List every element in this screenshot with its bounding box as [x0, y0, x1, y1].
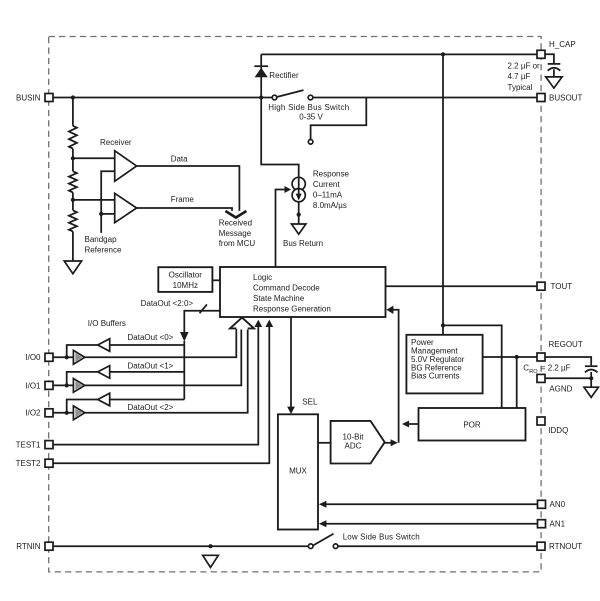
wire driver 1 to pin line — [67, 372, 98, 386]
svg-text:from MCU: from MCU — [219, 239, 256, 248]
node I/O1 tie — [65, 383, 69, 387]
wire DataOut 0 — [110, 344, 185, 346]
svg-text:Oscillator: Oscillator — [169, 271, 203, 280]
node divider tap 2 — [71, 198, 75, 202]
node bandgap tee — [99, 212, 103, 216]
svg-text:DataOut <0>: DataOut <0> — [128, 333, 174, 342]
wire TEST2 to logic — [53, 327, 269, 463]
svg-text:BUSIN: BUSIN — [16, 93, 41, 102]
svg-text:I/O Buffers: I/O Buffers — [88, 319, 126, 328]
svg-text:MUX: MUX — [289, 466, 307, 475]
svg-text:IDDQ: IDDQ — [548, 426, 568, 435]
arrow TEST2 into logic — [265, 320, 273, 327]
svg-text:SEL: SEL — [302, 398, 318, 407]
wire REGOUT from power management — [483, 356, 537, 358]
arrow SEL into MUX — [287, 407, 295, 414]
svg-text:10MHz: 10MHz — [173, 281, 198, 290]
svg-text:High Side Bus Switch: High Side Bus Switch — [268, 103, 349, 112]
arrow AN1 into MUX — [319, 520, 327, 527]
pin AN0 — [538, 500, 566, 509]
svg-text:Low Side Bus Switch: Low Side Bus Switch — [343, 532, 420, 541]
wire oscillator to logic — [212, 279, 220, 281]
wire driver 2 to pin line — [67, 400, 98, 413]
wire ADC output — [385, 442, 391, 444]
wire tap1 to data comparator — [73, 157, 115, 159]
switch high side bus switch — [268, 90, 349, 122]
svg-text:AGND: AGND — [549, 385, 572, 394]
arrow hollow bus arrow into logic bottom — [230, 318, 254, 329]
wire feedback into logic right edge — [393, 310, 399, 443]
wire DataOut bus vertical distribution — [183, 341, 185, 400]
wire I/O0 pin line — [53, 356, 73, 358]
arrow POR output into feedback line — [402, 421, 409, 428]
svg-text:Rectifier: Rectifier — [269, 71, 299, 80]
svg-text:Bus Return: Bus Return — [283, 239, 323, 248]
wire SEL from logic to MUX — [290, 317, 292, 407]
wire buffer 2 output to logic — [85, 330, 248, 413]
block power management — [406, 335, 482, 394]
svg-text:I/O2: I/O2 — [25, 409, 41, 418]
svg-text:Reference: Reference — [85, 246, 122, 255]
wire bus segment right of switch to BUSOUT — [313, 97, 537, 99]
svg-text:TOUT: TOUT — [551, 282, 573, 291]
svg-text:Command Decode: Command Decode — [253, 283, 320, 292]
node I/O2 tie — [65, 411, 69, 415]
buffer input schmitt 1 — [73, 379, 84, 393]
svg-text:H_CAP: H_CAP — [549, 40, 576, 49]
switch low side bus switch — [308, 532, 419, 548]
wire H_CAP pin branch down to capacitor — [545, 54, 554, 63]
svg-text:0-35 V: 0-35 V — [299, 113, 323, 122]
arrow ADC output into feedback line — [391, 439, 398, 446]
buffer output driver 2 — [98, 393, 110, 406]
wire driver 0 to pin line — [67, 345, 98, 357]
svg-text:0–11mA: 0–11mA — [313, 191, 343, 200]
op-amp data comparator — [115, 151, 137, 182]
svg-text:BUSOUT: BUSOUT — [549, 93, 582, 102]
node switch control terminal — [308, 140, 313, 145]
wire TOUT from logic — [386, 285, 538, 287]
ground RTN internal — [203, 555, 219, 567]
node bus tap to resistor divider — [71, 95, 75, 99]
pin AN1 — [538, 520, 566, 529]
node AGND junction — [589, 376, 593, 380]
capacitor C1 2.2uF or 4.7uF — [508, 62, 561, 92]
wire data output — [137, 166, 240, 211]
svg-text:ADC: ADC — [345, 442, 362, 451]
pin I/O0 — [25, 353, 53, 362]
svg-text:8.0mA/µs: 8.0mA/µs — [313, 201, 347, 210]
wire REGOUT branch into POR top — [516, 357, 518, 408]
svg-text:Current: Current — [313, 180, 340, 189]
pin IDDQ — [537, 417, 568, 435]
wire supply branch to POR top — [443, 325, 502, 408]
wire I/O1 pin line — [53, 384, 73, 386]
svg-text:POR: POR — [463, 421, 481, 430]
svg-text:Response: Response — [313, 169, 350, 178]
svg-text:TEST1: TEST1 — [16, 441, 41, 450]
wire logic control to current source — [276, 190, 285, 268]
arrow TEST1 into logic — [254, 320, 262, 327]
svg-text:AN0: AN0 — [550, 500, 566, 509]
wire BUSIN bus segment left — [53, 97, 272, 99]
op-amp frame comparator — [115, 193, 137, 222]
wire AGND node to AGND pin — [545, 377, 591, 379]
buffer output driver 0 — [98, 339, 110, 352]
block logic U1 — [220, 267, 386, 317]
svg-text:Message: Message — [219, 229, 252, 238]
node I/O0 tie — [65, 355, 69, 359]
svg-text:I/O1: I/O1 — [25, 381, 41, 390]
wire resistor divider column — [72, 98, 74, 261]
arrow feedback into logic — [386, 306, 393, 314]
svg-text:RTNIN: RTNIN — [16, 542, 41, 551]
pin AGND — [537, 374, 573, 393]
block oscillator U2 — [158, 267, 212, 292]
ground AGND external — [584, 387, 598, 397]
diode D1 rectifier — [254, 66, 299, 80]
wire DataOut 2 — [110, 399, 185, 401]
svg-text:Received: Received — [219, 218, 252, 227]
block ADC 10-bit — [331, 421, 385, 464]
svg-text:Receiver: Receiver — [100, 138, 132, 147]
wire supply drop from top rail into power management — [442, 54, 444, 334]
svg-text:RTNOUT: RTNOUT — [549, 542, 582, 551]
wire AN1 to MUX — [326, 523, 538, 525]
wire I/O2 pin line — [53, 412, 73, 414]
buffer output driver 1 — [98, 366, 110, 379]
pin RTNIN — [16, 542, 53, 551]
wire POR output — [409, 423, 419, 425]
wire top rail to H_CAP — [261, 53, 537, 55]
bus slash marker — [200, 304, 207, 313]
svg-text:State Machine: State Machine — [253, 294, 305, 303]
wire DataOut 1 — [110, 371, 185, 373]
pin BUSOUT — [537, 93, 582, 102]
svg-text:Frame: Frame — [171, 195, 195, 204]
wire buffer 1 output to logic — [85, 330, 242, 386]
wire RTN line to RTNOUT — [338, 545, 537, 547]
pin TEST1 — [16, 441, 53, 450]
node bus tap to rectifier — [259, 95, 263, 99]
pin REGOUT — [537, 340, 583, 361]
svg-text:Logic: Logic — [253, 273, 272, 282]
arrow received message chevron — [225, 211, 246, 218]
node supply branch to POR — [441, 323, 445, 327]
pin RTNOUT — [537, 542, 582, 551]
pin TEST2 — [16, 459, 53, 468]
svg-text:DataOut <1>: DataOut <1> — [128, 361, 174, 370]
pin H_CAP — [537, 40, 576, 58]
buffer input schmitt 2 — [73, 406, 84, 420]
bus return symbol at H_CAP — [546, 77, 562, 88]
arrow DataOut bus down — [180, 332, 189, 342]
svg-text:Bias Currents: Bias Currents — [411, 372, 459, 381]
node H_CAP rail junction — [441, 52, 445, 56]
wire capacitor to return symbol — [553, 69, 555, 77]
node REGOUT branch to POR — [515, 355, 519, 359]
bus return symbol — [292, 224, 306, 234]
wire DataOut bus from logic — [184, 311, 220, 334]
pin TOUT — [537, 282, 572, 291]
IC boundary dashed border — [49, 37, 541, 572]
resistor R1 — [69, 126, 77, 149]
wire bandgap reference feed — [101, 171, 115, 233]
current source I1 response current — [292, 169, 349, 209]
block POR — [419, 408, 526, 441]
node RTN ground tap — [208, 544, 212, 548]
capacitor C_RO 2.2uF — [523, 364, 597, 375]
wire REGOUT pin branch to external capacitor — [545, 357, 591, 365]
svg-text:= 2.2 µF: = 2.2 µF — [541, 364, 571, 373]
svg-text:REGOUT: REGOUT — [549, 340, 583, 349]
pin BUSIN — [16, 93, 53, 102]
svg-text:2.2 µF or: 2.2 µF or — [508, 62, 541, 71]
svg-text:DataOut <2:0>: DataOut <2:0> — [141, 299, 194, 308]
svg-text:Response Generation: Response Generation — [253, 305, 331, 314]
pin I/O2 — [25, 409, 53, 418]
node below current source — [297, 213, 301, 217]
svg-text:I/O0: I/O0 — [25, 353, 41, 362]
arrow AN0 into MUX — [319, 501, 327, 508]
block MUX — [278, 414, 318, 529]
ground divider ground — [64, 261, 81, 274]
svg-text:Bandgap: Bandgap — [85, 235, 118, 244]
svg-text:Data: Data — [171, 155, 188, 164]
wire buffer 0 output to logic — [85, 329, 237, 357]
svg-text:10-Bit: 10-Bit — [343, 432, 365, 441]
svg-text:AN1: AN1 — [550, 520, 566, 529]
wire switch control tap — [311, 98, 367, 140]
resistor R3 — [69, 210, 77, 231]
wire RTNIN line — [53, 545, 309, 547]
svg-text:DataOut <2>: DataOut <2> — [128, 403, 174, 412]
node divider tap 1 — [71, 156, 75, 160]
svg-text:Typical: Typical — [508, 83, 533, 92]
wire tap2 to frame comparator — [73, 199, 115, 201]
wire TEST1 to logic — [53, 327, 258, 445]
pin I/O1 — [25, 381, 53, 390]
svg-text:4.7 µF: 4.7 µF — [508, 72, 531, 81]
resistor R2 — [69, 171, 77, 192]
wire capacitor to AGND node — [590, 372, 592, 387]
wire frame output — [137, 208, 232, 211]
svg-text:TEST2: TEST2 — [16, 459, 41, 468]
buffer input schmitt 0 — [73, 350, 84, 364]
wire rectifier node to current source — [261, 98, 299, 178]
arrow control into current source — [285, 186, 292, 193]
wire rectifier riser — [260, 54, 262, 97]
wire current source to bus return — [298, 202, 300, 224]
wire MUX to ADC — [318, 442, 331, 444]
wire AN0 to MUX — [326, 503, 538, 505]
